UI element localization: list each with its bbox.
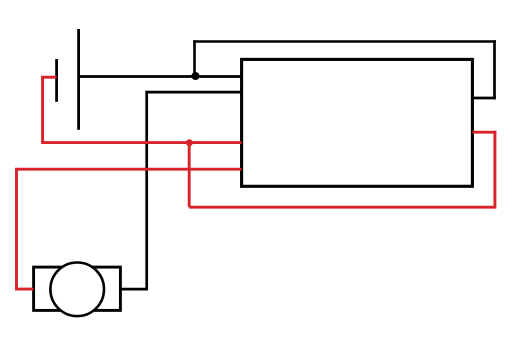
wire U1 second left pin horizontal: [147, 91, 242, 94]
wire red left vertical from battery: [41, 76, 44, 144]
wire red into U1 right lower pin: [472, 131, 496, 134]
motor M1 body: [34, 267, 121, 310]
wire top horizontal run: [193, 40, 496, 43]
wire red horizontal to U1 left: [41, 141, 241, 144]
wire junction up from dot: [193, 40, 196, 78]
wire red vertical from red dot: [188, 141, 191, 207]
wire red second horizontal to U1 left lower pin: [17, 168, 242, 171]
wire red right vertical rise: [493, 131, 496, 209]
wire into U1 right pin: [472, 97, 495, 100]
wire vertical down to motor: [145, 91, 148, 291]
wire red battery negative stub: [41, 76, 56, 79]
wire into motor right terminal: [120, 288, 148, 291]
wire battery positive to U1 left pin: [79, 75, 242, 78]
red junction dot: [186, 139, 193, 146]
battery B1 positive plate: [77, 29, 80, 130]
wire red bottom horizontal run: [189, 206, 495, 209]
battery B1 negative plate: [55, 59, 58, 102]
motor M1 rotor circle: [50, 263, 104, 317]
wire right vertical drop: [493, 40, 496, 99]
wire red into motor left terminal: [17, 288, 34, 291]
wire red far-left vertical: [15, 168, 18, 291]
junction dot: [192, 72, 200, 80]
IC U1 block: [242, 59, 473, 186]
